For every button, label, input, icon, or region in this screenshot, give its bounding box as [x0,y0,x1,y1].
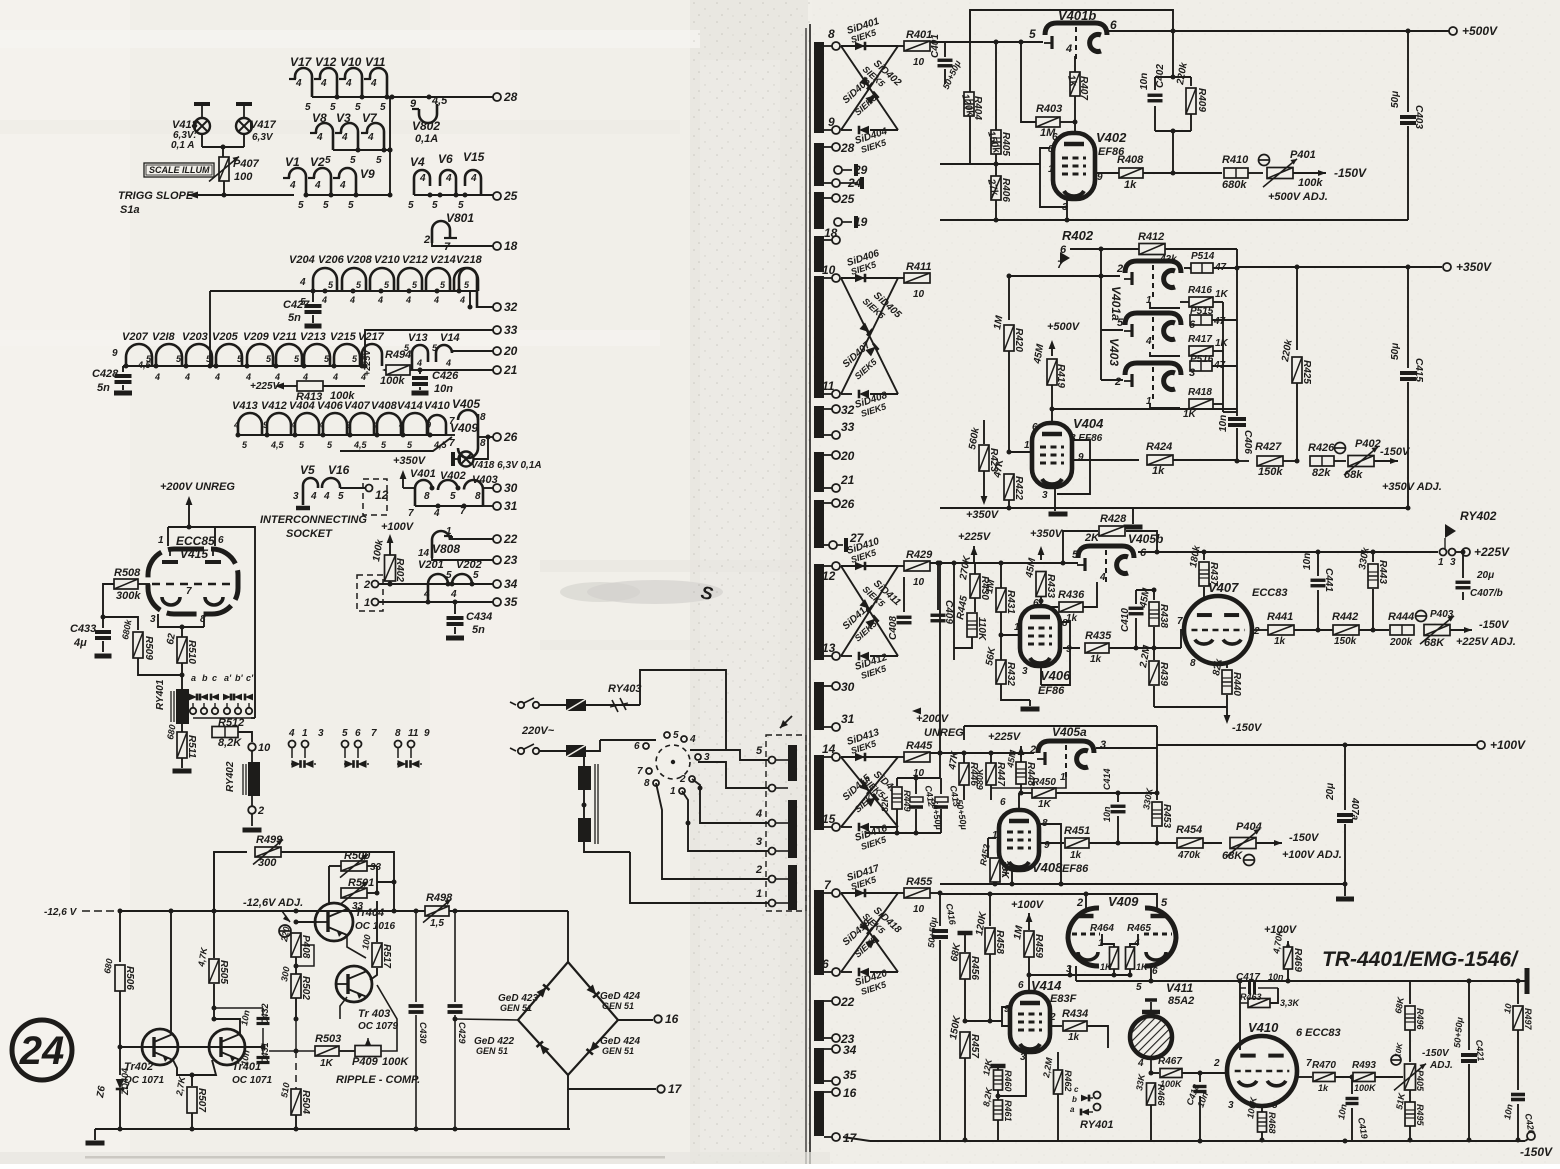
svg-text:RY402: RY402 [1460,509,1497,523]
wire group1-3 vert [389,97,391,195]
svg-text:5: 5 [473,570,479,581]
svg-text:300: 300 [258,857,277,869]
resistor R449 [892,787,902,809]
svg-text:V808: V808 [432,542,460,556]
pins RY402 [1440,549,1447,556]
diode SiD410 [841,565,876,567]
svg-text:68K: 68K [1424,637,1445,649]
svg-text:V417: V417 [250,119,277,131]
svg-text:V12: V12 [315,55,337,69]
capacitor C413 [935,797,948,802]
svg-text:2: 2 [1253,626,1260,637]
svg-text:C402: C402 [1155,64,1166,88]
svg-text:R465: R465 [1127,923,1151,934]
svg-text:8: 8 [828,27,835,41]
svg-text:5: 5 [350,155,356,166]
resistor R440 [1222,670,1232,694]
svg-text:4: 4 [233,420,239,430]
terminal -150V bottom [1525,1139,1528,1141]
wire bottom rail [870,1140,1525,1142]
resistor R466 [1149,1071,1154,1076]
svg-text:R459: R459 [1033,934,1044,958]
wire base line [137,1046,217,1048]
svg-text:3: 3 [1189,367,1195,379]
svg-text:4: 4 [289,180,296,191]
terminal 20 [493,347,501,355]
triode V403a [1125,313,1181,325]
svg-text:V212: V212 [402,254,428,266]
resistor R420 [1008,276,1010,320]
svg-text:33: 33 [841,420,855,434]
rotary contact [689,776,695,782]
bus pin 31 [824,726,832,728]
resistor R417 [1150,352,1180,356]
wire chain1 bottom [210,290,477,292]
svg-text:RY403: RY403 [608,683,641,695]
svg-text:V405b: V405b [1128,532,1163,546]
svg-text:EF86: EF86 [1038,685,1065,697]
svg-text:7: 7 [444,241,451,253]
potentiometer P403 [1416,611,1427,622]
resistor R444 [1390,625,1414,635]
terminal 22 [493,535,501,543]
wire bottom rail sect1 [940,219,1408,221]
resistor R467 [1151,1072,1159,1074]
svg-text:V211: V211 [272,331,297,343]
svg-text:R462: R462 [1063,1070,1073,1092]
terminal 33 [493,326,501,334]
svg-text:C430: C430 [418,1022,428,1044]
svg-text:R402: R402 [1062,228,1094,243]
svg-text:2: 2 [679,774,686,785]
svg-text:V10: V10 [340,55,362,69]
svg-text:SOCKET: SOCKET [286,528,333,540]
resistor R468 [1261,1106,1263,1112]
wire group2 bottom [333,149,390,151]
svg-text:R456: R456 [969,956,980,980]
svg-text:1: 1 [670,786,676,797]
wire V402 cathode [1040,148,1067,220]
svg-text:1: 1 [1146,396,1152,407]
wire pin2 line [1009,275,1120,277]
svg-text:C427: C427 [283,299,310,311]
svg-text:1,5: 1,5 [430,918,444,929]
svg-text:7: 7 [186,586,192,597]
tube V411 85A2 [1130,1016,1172,1058]
svg-text:C417: C417 [1236,972,1260,983]
svg-text:3: 3 [293,491,299,502]
svg-text:V11: V11 [365,55,386,69]
svg-text:3: 3 [1100,739,1106,751]
terminal 21 [493,366,501,374]
relay diode [223,694,231,701]
svg-text:+500V: +500V [1047,321,1081,333]
svg-text:26: 26 [840,497,855,511]
resistor R443 [1372,552,1374,562]
svg-text:10n: 10n [1218,415,1229,432]
resistor R496 [1409,981,1411,1004]
svg-text:6: 6 [1140,547,1147,559]
svg-text:E83F: E83F [1050,993,1077,1005]
svg-text:R500: R500 [344,850,371,862]
diode SiD414 [841,757,898,827]
svg-text:82k: 82k [1312,467,1331,479]
relay diode [189,694,197,701]
bus pin 19 [836,221,852,223]
svg-text:OC 1016: OC 1016 [355,921,395,932]
resistor R441 [1268,625,1294,635]
svg-text:9: 9 [1066,644,1072,655]
svg-text:4,5: 4,5 [270,440,285,450]
svg-text:31: 31 [504,499,518,513]
svg-text:9: 9 [828,115,835,129]
svg-text:28: 28 [503,90,518,104]
bus pin 34 [814,1048,824,1084]
resistor R426 [1310,456,1334,466]
diode SiD401 [841,45,876,47]
wire sect2 bottom [940,507,1410,509]
diode SiD412 [841,655,852,657]
svg-text:RY401: RY401 [155,679,166,710]
svg-text:100K: 100K [1354,1083,1377,1093]
resistor R451 [1040,842,1064,844]
svg-text:b: b [1072,1095,1077,1104]
fuse 2 [566,745,586,757]
wire V404 ground [1054,487,1056,511]
svg-text:8: 8 [475,491,481,502]
svg-text:10: 10 [258,742,271,754]
resistor R434 [1050,1025,1062,1027]
wire to 31 [483,505,493,507]
svg-text:R509: R509 [143,636,154,660]
wire R446 R447 stubs [963,753,965,763]
svg-text:R503: R503 [315,1033,341,1045]
svg-text:C414: C414 [1102,768,1112,790]
svg-text:1K: 1K [1215,289,1229,300]
svg-text:4μ: 4μ [73,637,87,649]
svg-text:8: 8 [1272,1100,1278,1111]
svg-text:4: 4 [310,491,317,502]
bus pin 15 [824,826,832,828]
resistor R498 [425,906,449,916]
svg-text:85A2: 85A2 [1168,995,1194,1007]
svg-text:R470: R470 [1312,1060,1336,1071]
svg-text:18: 18 [824,226,838,240]
wire V405a grid [991,776,1066,788]
svg-text:2: 2 [1116,263,1123,275]
resistor R509 [103,617,138,630]
svg-text:C408: C408 [888,616,899,640]
resistor R425 [1296,267,1298,350]
wire R405 branch [995,42,997,220]
capacitor C409 [937,563,939,610]
diode SiD407 [841,278,898,394]
svg-text:V412: V412 [261,400,287,412]
svg-text:6: 6 [822,957,829,971]
wire V403 left feeds [1100,276,1102,380]
svg-text:R469: R469 [1292,948,1303,972]
svg-text:-150V: -150V [1232,722,1263,734]
svg-text:V407: V407 [1208,580,1239,595]
svg-text:11: 11 [822,379,835,393]
bus pin 32 [814,406,824,438]
transistor Tr402 [142,1029,178,1065]
resistor R438 [1153,590,1155,600]
svg-text:C403: C403 [1413,105,1424,129]
diode SiD411 [841,566,898,656]
svg-text:R444: R444 [1388,611,1414,623]
svg-text:V802: V802 [412,119,440,133]
wire -150V arrow 3 [1450,629,1472,631]
svg-text:R493: R493 [1352,1060,1376,1071]
svg-text:1: 1 [756,888,762,900]
svg-text:470k: 470k [1177,850,1201,861]
resistor R452 [988,837,996,839]
svg-text:R463: R463 [1240,992,1262,1002]
bus pin 29 [836,169,852,171]
bus pin 6 [824,971,832,973]
svg-text:C410: C410 [1120,608,1131,632]
resistor R506 [115,965,125,991]
rotary contact [664,732,670,738]
svg-text:+225V ADJ.: +225V ADJ. [1456,636,1516,648]
svg-text:8: 8 [395,728,401,739]
rotary contact [679,788,685,794]
resistor R510 [177,637,187,663]
triode V405b [1078,546,1134,558]
svg-text:4: 4 [339,180,346,191]
svg-text:V6: V6 [438,152,453,166]
bus pin 7 [814,890,824,975]
svg-text:9: 9 [346,420,351,430]
svg-text:150k: 150k [1334,636,1357,647]
connector contact [769,900,776,907]
resistor R455 [898,892,904,894]
resistor R411 [898,277,904,279]
resistor R497 [1517,981,1519,1004]
svg-text:R504: R504 [300,1090,311,1114]
wire sect4 bottom [940,883,1345,885]
wire top frame [970,10,1173,42]
svg-text:22: 22 [840,995,855,1009]
svg-text:V214: V214 [430,254,456,266]
svg-text:-150V: -150V [1479,619,1510,631]
resistor R401 [898,45,904,47]
resistor R504 [291,1089,301,1115]
svg-text:R502: R502 [300,976,311,1000]
svg-text:ECC83: ECC83 [1252,587,1287,599]
svg-text:35: 35 [843,1068,857,1082]
svg-text:5n: 5n [288,312,301,324]
svg-text:V204: V204 [289,254,315,266]
resistor R453 [1156,793,1158,800]
svg-text:Z6: Z6 [95,1085,108,1100]
resistor R459 [1028,925,1030,930]
relay diode [200,694,208,701]
wire V406 pin1 [1001,634,1020,636]
svg-text:R431: R431 [1005,590,1016,614]
svg-text:R441: R441 [1267,611,1293,623]
svg-text:20μ: 20μ [1325,783,1336,801]
bus pin 10 [814,276,824,398]
resistor R500 [329,865,341,867]
svg-text:6: 6 [1033,598,1039,609]
wire group4 bottom [414,194,493,196]
svg-text:4: 4 [1065,43,1072,55]
svg-text:100: 100 [234,171,253,183]
svg-text:1k: 1k [1090,654,1102,665]
svg-text:1: 1 [1438,557,1444,568]
wire C431 link [214,1007,263,1009]
rotary contact [646,768,652,774]
wire +225V rail [1138,551,1438,553]
capacitor C414 [1117,793,1119,802]
wire plate line V409 [930,892,940,894]
svg-text:GEN 51: GEN 51 [602,1001,634,1011]
svg-text:4: 4 [323,491,330,502]
svg-text:2: 2 [1114,376,1121,388]
wire R466 C418 bottoms [1199,1096,1201,1141]
potentiometer P405 [1391,1055,1401,1065]
wire relay bottom [193,717,251,719]
connector contact [769,848,776,855]
svg-text:R411: R411 [906,261,931,273]
capacitor C441 [1317,552,1319,576]
relay diode [234,694,242,701]
svg-text:3: 3 [1450,557,1456,568]
diode SiD405 [841,278,898,394]
svg-text:5: 5 [376,155,382,166]
svg-text:b': b' [235,673,243,683]
wire 35 line [379,601,493,603]
svg-text:V409: V409 [450,421,478,435]
wire cap bottoms [866,832,941,834]
svg-text:V414: V414 [397,400,423,412]
svg-text:R445: R445 [906,740,933,752]
svg-text:+350V: +350V [966,509,1000,521]
resistor R457 [960,1032,970,1058]
svg-text:21: 21 [503,363,518,377]
connector contact [769,757,776,764]
svg-text:V401: V401 [410,468,436,480]
svg-text:TRIGG SLOPE: TRIGG SLOPE [118,190,194,202]
capacitor C412 [910,797,923,802]
svg-text:9: 9 [263,420,268,430]
terminal 32 [493,303,501,311]
svg-text:3: 3 [150,614,156,625]
svg-text:1k: 1k [1274,636,1286,647]
svg-text:9: 9 [1004,1004,1010,1015]
svg-text:R416: R416 [1188,285,1212,296]
terminal 23 [493,556,501,564]
svg-text:P401: P401 [1290,149,1316,161]
resistor R439 [1153,648,1155,660]
svg-text:-150V: -150V [1289,832,1320,844]
svg-text:EF86: EF86 [1062,863,1089,875]
connector plug arrow [780,716,792,728]
svg-text:1: 1 [158,535,164,546]
svg-text:9: 9 [424,728,430,739]
svg-text:R495: R495 [1415,1104,1425,1127]
terminal 25 [493,192,501,200]
svg-text:R407: R407 [1078,76,1089,100]
wire lamp join [201,134,203,147]
wire V407 grid7 [1181,630,1184,648]
svg-text:UNREG: UNREG [924,727,964,739]
bus pin 22 [814,1000,824,1041]
svg-text:10: 10 [913,57,925,68]
svg-text:9: 9 [426,420,431,430]
svg-text:V418 6,3V 0,1A: V418 6,3V 0,1A [471,460,542,471]
svg-text:R419: R419 [1055,364,1066,388]
svg-text:R517: R517 [381,944,392,968]
svg-text:S1a: S1a [120,204,140,216]
wire V406 plate to grid-7 [1063,647,1080,649]
svg-text:2: 2 [1076,897,1083,909]
wire Tr404 base [294,920,299,925]
svg-text:200k: 200k [1389,637,1413,648]
svg-text:13: 13 [822,641,836,655]
capacitor C416 [939,894,941,926]
wire C416 top from R455 [938,891,943,896]
resistor R458 [989,894,991,926]
resistor R508 [114,579,138,589]
bus pin 8 [814,42,824,133]
wire V14 to 20 [452,351,493,352]
svg-text:V15: V15 [463,150,485,164]
svg-text:4: 4 [459,295,465,305]
svg-text:4: 4 [416,358,422,368]
capacitor C429 [454,911,456,1002]
wire cathode y975 [1029,974,1130,976]
svg-text:5: 5 [1029,27,1036,41]
svg-text:R422: R422 [1013,476,1024,500]
svg-text:R499: R499 [256,834,283,846]
svg-text:22: 22 [503,532,518,546]
svg-text:R496: R496 [1415,1008,1425,1031]
svg-text:V203: V203 [182,331,208,343]
svg-text:RIPPLE - COMP.: RIPPLE - COMP. [336,1074,420,1086]
resistor R470 [1297,1076,1312,1078]
svg-text:V406: V406 [1040,668,1071,683]
wire Tr401 base [142,1046,209,1048]
svg-text:23: 23 [503,553,518,567]
svg-text:150k: 150k [1258,466,1283,478]
svg-text:4: 4 [184,372,190,382]
svg-text:R429: R429 [906,549,933,561]
svg-text:4: 4 [314,180,321,191]
svg-text:8: 8 [480,412,486,423]
bus pin 14 [814,755,824,830]
resistor R404 [964,92,974,116]
svg-text:5n: 5n [472,624,485,636]
diode SiD403 [841,46,898,130]
svg-text:10n: 10n [1302,553,1313,570]
svg-text:R510: R510 [186,640,197,664]
diode SiD413 [841,756,876,758]
svg-text:5: 5 [446,570,452,581]
svg-text:20μ: 20μ [1476,570,1494,581]
svg-text:10n: 10n [1139,73,1150,90]
svg-text:R505: R505 [218,960,229,984]
svg-text:3: 3 [1228,1100,1234,1111]
bus pin 12 [814,564,824,660]
svg-text:5: 5 [756,745,763,757]
svg-text:4: 4 [154,372,160,382]
svg-text:C409: C409 [943,600,954,624]
svg-text:V405a: V405a [1052,725,1087,739]
heater V217 arc [362,344,382,366]
